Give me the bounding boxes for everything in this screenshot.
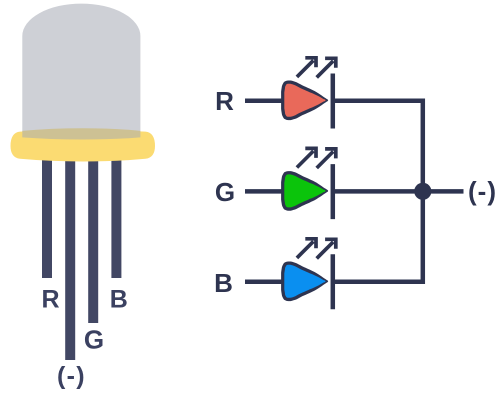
LED epoxy dome body xyxy=(22,4,140,146)
common cathode bus wire xyxy=(335,101,423,282)
leg B (pin 4) xyxy=(111,150,121,278)
LED D2 emission arrow 1 xyxy=(297,148,316,167)
svg-text:R: R xyxy=(41,285,59,313)
leg G (pin 3) xyxy=(88,150,98,323)
svg-text:(-): (-) xyxy=(468,176,497,206)
wire B anode xyxy=(245,280,284,285)
LED D2 cathode bar xyxy=(331,164,336,219)
LED D3 blue triangle outline xyxy=(281,262,328,302)
svg-text:G: G xyxy=(84,325,104,355)
LED D3 emission arrow 1 xyxy=(297,239,316,258)
LED D1 red triangle outline xyxy=(281,81,328,121)
svg-text:(-): (-) xyxy=(57,362,86,390)
LED D2 green triangle outline xyxy=(281,171,328,211)
wire R anode xyxy=(245,99,284,104)
LED D1 red triangle fill xyxy=(284,84,325,117)
LED D2 emission arrow 2 xyxy=(317,149,336,168)
LED D3 cathode bar xyxy=(331,254,336,309)
svg-text:G: G xyxy=(215,177,235,207)
LED D3 emission arrow 2 xyxy=(317,239,336,258)
svg-text:B: B xyxy=(110,285,128,313)
leg common cathode (-) (pin 2) xyxy=(65,150,75,360)
flange top surface under dome (khaki) xyxy=(22,128,140,139)
LED D1 cathode bar xyxy=(331,74,336,129)
leg R (pin 1) xyxy=(42,150,52,278)
svg-text:R: R xyxy=(215,86,234,116)
wire G cathode to node xyxy=(335,189,464,194)
LED D2 green triangle fill xyxy=(284,174,325,207)
LED D1 emission arrow 1 xyxy=(297,58,316,77)
junction node dot xyxy=(414,183,431,200)
LED D3 blue triangle fill xyxy=(284,265,325,298)
svg-text:B: B xyxy=(214,268,233,298)
LED D1 emission arrow 2 xyxy=(317,58,336,77)
wire G anode xyxy=(245,189,284,194)
LED flange rim (yellow) xyxy=(11,130,156,161)
